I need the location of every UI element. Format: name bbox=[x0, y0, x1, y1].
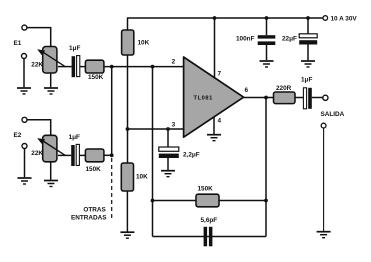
svg-text:1μF: 1μF bbox=[301, 77, 312, 84]
wire: P1 wiper to C1 bbox=[58, 66, 72, 68]
junction: rail / 22uF bbox=[306, 16, 310, 20]
wire: E1 terminal to pot P1 bbox=[27, 28, 51, 47]
wire: pin3 node to C3 bbox=[167, 129, 169, 147]
wire: 100nF bottom lead bbox=[266, 45, 268, 60]
capacitor C3 2.2uF bbox=[159, 147, 200, 158]
svg-text:4: 4 bbox=[218, 118, 222, 125]
junction: pin3 / C3 bbox=[166, 127, 170, 131]
junction: rail / 100nF bbox=[265, 16, 269, 20]
ground: pin 4 bbox=[207, 135, 221, 141]
wire: output to feedback network bbox=[265, 98, 267, 237]
wire: +V supply rail bbox=[127, 17, 323, 19]
resistor R2 150K bbox=[85, 149, 104, 173]
wire: E1 lower terminal to ground bbox=[23, 59, 25, 88]
svg-text:1μF: 1μF bbox=[69, 45, 80, 52]
wire: pin 7 to rail bbox=[214, 18, 216, 79]
capacitor C7 5.6pF bbox=[201, 217, 218, 247]
wire: R4 bottom to ground bbox=[126, 191, 128, 232]
wire: E2 terminal to pot P2 bbox=[27, 120, 51, 136]
svg-text:6: 6 bbox=[245, 87, 249, 94]
svg-text:TL081: TL081 bbox=[194, 96, 213, 102]
svg-text:7: 7 bbox=[218, 71, 222, 78]
terminal: SALIDA hot bbox=[323, 95, 328, 100]
svg-text:E2: E2 bbox=[14, 132, 22, 139]
terminal: E2 lower bbox=[22, 144, 27, 149]
wire: pin3 node to R4 bbox=[127, 129, 129, 163]
wire: P2 bottom to ground bbox=[50, 162, 52, 180]
ground: C5 bbox=[301, 61, 315, 67]
terminal: E2 upper bbox=[22, 117, 27, 122]
wire: feedback node to R5 bbox=[153, 200, 197, 202]
ground: output bbox=[317, 232, 331, 238]
ground: E1 bbox=[17, 88, 31, 94]
svg-text:150K: 150K bbox=[88, 74, 104, 81]
label OTRAS ENTRADAS bbox=[71, 207, 107, 222]
junction: feedback left / R5 bbox=[151, 199, 155, 203]
svg-text:22K: 22K bbox=[31, 150, 43, 157]
wire: 100nF top lead bbox=[266, 18, 268, 35]
svg-text:150K: 150K bbox=[198, 186, 214, 193]
ground: P2 bbox=[44, 181, 58, 187]
junction: summing node / E2 branch bbox=[110, 65, 114, 69]
svg-text:ENTRADAS: ENTRADAS bbox=[71, 215, 107, 222]
capacitor C2 1uF bbox=[69, 134, 80, 166]
svg-text:E1: E1 bbox=[14, 40, 22, 47]
ground: C4 bbox=[260, 61, 274, 67]
capacitor C6 1uF output bbox=[301, 77, 312, 109]
svg-text:2: 2 bbox=[172, 59, 176, 66]
wire: R5 to output riser bbox=[219, 200, 266, 202]
resistor R6 220R bbox=[274, 85, 296, 104]
svg-text:10K: 10K bbox=[138, 39, 150, 46]
wire: dashed other-inputs stub bbox=[111, 158, 113, 219]
op-amp U1 TL081 bbox=[184, 57, 244, 137]
wire: op-amp output bbox=[244, 97, 274, 99]
wire: 22uF bottom lead bbox=[307, 45, 309, 61]
svg-text:2,2μF: 2,2μF bbox=[183, 151, 200, 158]
ground: R4 bbox=[120, 232, 134, 238]
wire: E2 lower terminal to ground bbox=[24, 149, 26, 178]
potentiometer P1 22K bbox=[31, 47, 65, 74]
wire: summing node down to E2 input bbox=[111, 67, 113, 156]
wire: P1 bottom to ground bbox=[50, 73, 52, 87]
svg-text:220R: 220R bbox=[276, 85, 292, 92]
resistor R5 150K feedback bbox=[196, 186, 219, 207]
capacitor C5 22uF bbox=[282, 34, 317, 45]
svg-text:22μF: 22μF bbox=[282, 36, 297, 43]
junction: E2 branch / other inputs bbox=[110, 153, 114, 157]
resistor R1 150K bbox=[85, 60, 104, 81]
potentiometer P2 22K bbox=[31, 135, 65, 162]
junction: feedback right / output riser bbox=[264, 199, 268, 203]
wire: C3 to ground bbox=[167, 158, 169, 170]
junction: output / feedback bbox=[264, 96, 268, 100]
svg-text:OTRAS: OTRAS bbox=[83, 207, 106, 214]
terminal: E1 lower bbox=[22, 54, 27, 59]
wire: feedback riser bbox=[152, 67, 154, 237]
terminal: SALIDA ground bbox=[321, 123, 326, 128]
svg-text:100nF: 100nF bbox=[236, 36, 255, 43]
wire: P2 wiper to C2 bbox=[58, 154, 71, 156]
svg-text:SALIDA: SALIDA bbox=[321, 111, 345, 118]
wire: C1 to R1 bbox=[80, 66, 86, 68]
junction: rail / pin7 bbox=[213, 16, 217, 20]
svg-text:22K: 22K bbox=[31, 61, 43, 68]
capacitor C4 100nF bbox=[236, 35, 275, 45]
svg-text:1μF: 1μF bbox=[69, 134, 80, 141]
capacitor C1 1uF bbox=[69, 45, 80, 77]
wire: R6 to C6 bbox=[295, 97, 303, 99]
wire: R2 to summing branch bbox=[104, 154, 112, 156]
svg-text:10K: 10K bbox=[136, 174, 148, 181]
ground: C3 bbox=[161, 171, 175, 177]
wire: R3 bottom to pin3 node bbox=[127, 55, 129, 129]
wire: C2 to R2 bbox=[79, 154, 85, 156]
wire: R1 to op-amp pin 2 bbox=[104, 66, 184, 68]
wire: bottom feedback line bbox=[153, 236, 267, 238]
junction: bias divider / pin3 bbox=[126, 127, 130, 131]
wire: op-amp pin 3 line bbox=[128, 128, 184, 130]
resistor R4 10K (lower bias) bbox=[121, 163, 148, 191]
svg-text:150K: 150K bbox=[86, 166, 102, 173]
wire: pin 4 to ground bbox=[213, 117, 215, 135]
terminal: +V supply bbox=[323, 16, 328, 21]
wire: C6 to output terminal bbox=[312, 97, 323, 99]
wire: 22uF top lead bbox=[307, 18, 309, 34]
wire: output ground lead bbox=[323, 128, 325, 231]
svg-text:5,6pF: 5,6pF bbox=[201, 217, 218, 224]
terminal: E1 upper bbox=[22, 25, 27, 30]
wire: rail to R3 top bbox=[127, 18, 129, 30]
svg-text:3: 3 bbox=[172, 122, 176, 129]
svg-text:10 A 30V: 10 A 30V bbox=[331, 16, 358, 23]
junction: summing node / feedback bbox=[151, 65, 155, 69]
resistor R3 10K (upper bias) bbox=[122, 30, 150, 55]
ground: P1 bbox=[44, 88, 58, 94]
ground: E2 bbox=[18, 178, 32, 184]
